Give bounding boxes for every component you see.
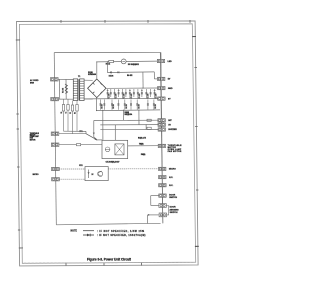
label INT: [168, 120, 172, 122]
svg-text:SWITCH: SWITCH: [170, 212, 178, 214]
relay RY2 text: [92, 174, 95, 176]
label fan motor small: [141, 154, 146, 156]
label 5V C: [168, 124, 171, 126]
connector CN1 AC line 2: [51, 97, 59, 100]
label BUZZER: [168, 129, 177, 131]
left border blob 2: [17, 128, 19, 130]
note line1 symbol: [83, 230, 94, 232]
wire rail2: [107, 71, 154, 74]
transformer T1 primary: [73, 79, 77, 101]
connector CN2 motor pin 1: [51, 132, 59, 135]
diode D7 on drop: [93, 133, 95, 135]
wire buzzer rail: [100, 128, 158, 130]
relay RY1 driver: [105, 147, 110, 152]
left border tick: [16, 39, 20, 41]
connector CN3 micro pin 1: [52, 167, 60, 170]
capacitor bank row 1 labels: [108, 93, 158, 98]
svg-text:TM(M): TM(M): [139, 144, 144, 146]
capacitor bank row 1: [107, 89, 156, 99]
wire door switch left: [151, 196, 159, 206]
connector INT: [158, 119, 165, 122]
top border tick 3: [147, 20, 149, 23]
top border tick 2: [104, 20, 106, 23]
label D1: [88, 72, 96, 76]
svg-text:DOOR: DOOR: [170, 207, 177, 209]
bottom border tick 1: [65, 263, 67, 266]
junction bridge plus: [96, 61, 97, 62]
connector door sensing 1: [159, 204, 166, 208]
svg-text:: IF NOT SPECIFIED, 1SS270A(M): : IF NOT SPECIFIED, 1SS270A(M): [97, 234, 146, 237]
label RY1: [79, 131, 82, 133]
svg-text:R2: R2: [75, 112, 77, 114]
label LED: [168, 61, 173, 63]
diode D6: [117, 71, 119, 73]
svg-text:N.C.: N.C.: [169, 177, 174, 179]
svg-text:N.C.: N.C.: [169, 185, 174, 187]
connector A: [158, 77, 165, 80]
wire bridge bottom to rail low: [96, 98, 98, 111]
wire bridge plus stub: [96, 62, 98, 79]
svg-text:C1: C1: [65, 111, 67, 113]
diode D5: [110, 71, 112, 73]
junction dots rails: [96, 61, 147, 125]
connector LED: [157, 59, 164, 62]
wire door sensing left: [148, 215, 159, 224]
relay contact: [86, 134, 97, 140]
resistor R4 on rail: [109, 60, 114, 62]
label D8 part no: [125, 112, 133, 116]
label TM: [139, 144, 144, 146]
label AC cord: [30, 79, 39, 84]
connector NC2: [159, 184, 166, 187]
bottom border tick 2: [103, 263, 105, 266]
wire AC pin join vertical: [59, 79, 61, 99]
varistor VA1: [65, 79, 68, 99]
capacitor bank row 2 labels: [102, 104, 157, 109]
wire RY1 to conn: [128, 145, 159, 147]
left border tick lower: [19, 247, 23, 249]
label GND: [168, 88, 173, 90]
label R4: [106, 63, 110, 66]
wire motor line 1: [59, 133, 86, 135]
wire conn column verticals: [161, 52, 163, 223]
connector door switch: [159, 194, 166, 197]
label turntable motor block: [30, 132, 39, 141]
left border blob 1: [16, 113, 18, 115]
wire secondary top to bridge: [84, 79, 93, 81]
svg-text:C2: C2: [70, 112, 72, 114]
relay RY2 transistor: [98, 171, 103, 177]
wire rail2 drop: [106, 62, 108, 73]
note line1 text: [97, 230, 145, 233]
svg-text:D5 D6: D5 D6: [109, 75, 114, 77]
svg-text:CE JS1E(M)-DC5V: CE JS1E(M)-DC5V: [106, 162, 121, 164]
svg-text:MOTOR: MOTOR: [30, 139, 36, 141]
svg-text:NOTE: NOTE: [71, 231, 78, 233]
wire rail low: [96, 109, 160, 112]
label R6: [127, 74, 132, 77]
connector door sensing 2: [159, 213, 166, 217]
wire 5V rail: [100, 124, 158, 126]
label 5V A: [168, 79, 171, 81]
svg-text:C8 100: C8 100: [102, 104, 104, 109]
junction contact: [96, 139, 97, 140]
label MICRO right: [169, 169, 176, 171]
label turntable right: [168, 144, 182, 153]
transformer T1 core: [78, 79, 79, 100]
right border tick lower: [195, 245, 199, 247]
bracket door sensing: [167, 206, 170, 215]
note line2 symbol: [83, 234, 94, 237]
left border blob 3: [17, 166, 19, 168]
wire rail B: [84, 98, 158, 100]
component on motor line 2: [76, 144, 80, 146]
relay RY1 box: [102, 140, 128, 158]
label R8 R9: [138, 136, 147, 139]
resistor R8: [147, 119, 151, 121]
connector CN2 motor pin 2: [51, 143, 59, 146]
wire secondary bottom to bridge: [84, 98, 93, 100]
svg-text:C8 100: C8 100: [113, 104, 115, 109]
wire micro 1 dashed: [59, 168, 85, 170]
wire relay feed 2: [114, 125, 116, 140]
svg-text:RY2: RY2: [79, 165, 82, 167]
svg-text:BUZZER: BUZZER: [168, 129, 177, 131]
svg-text:C8 100: C8 100: [126, 104, 128, 109]
fuse F1 circle: [121, 59, 126, 64]
wire sub bottom bus: [64, 131, 87, 134]
svg-text:D8(M): D8(M): [125, 112, 130, 114]
wire micro right dashed: [108, 168, 158, 170]
relay RY2 diode: [88, 170, 90, 179]
right border tick: [192, 36, 196, 38]
right border blob 3: [196, 189, 198, 191]
resistor R9: [147, 127, 151, 129]
svg-text:MICRO: MICRO: [33, 174, 40, 176]
figure title: [87, 258, 131, 262]
PCB outline right edge: [160, 52, 163, 223]
label T1: [78, 76, 81, 78]
connector GND: [158, 86, 165, 89]
bottom border tick 3: [141, 263, 143, 266]
wire AC neutral to transformer: [58, 98, 73, 100]
connector turntable: [158, 144, 165, 147]
svg-text:GND: GND: [168, 88, 173, 90]
note line2 text: [97, 234, 146, 237]
svg-text:LED: LED: [168, 61, 173, 63]
wire DC rail top: [97, 60, 158, 63]
svg-text:BRN: BRN: [30, 82, 35, 84]
svg-text:Figure 9-3. Power Unit Circuit: Figure 9-3. Power Unit Circuit: [87, 258, 131, 262]
wire 5V drop: [138, 110, 140, 125]
transformer T1 secondary: [80, 79, 84, 101]
svg-text:: IF NOT SPECIFIED, 1/4W ±5%: : IF NOT SPECIFIED, 1/4W ±5%: [97, 230, 145, 233]
connector CN3 micro pin 2: [52, 178, 60, 181]
wire relay feed: [102, 110, 104, 140]
PCB outline top edge: [54, 51, 160, 53]
relay RY2 box: [85, 167, 108, 181]
label D3 part no: [128, 64, 139, 66]
svg-text:C8 100: C8 100: [155, 104, 157, 109]
svg-text:FAN MOTOR: FAN MOTOR: [168, 150, 182, 153]
label RY2: [79, 165, 82, 167]
page inner border: [19, 24, 195, 263]
label NC2: [169, 185, 174, 187]
wire micro 2 dashed: [59, 178, 85, 180]
label RY1 part: [106, 162, 121, 164]
connector NC1: [159, 175, 166, 178]
label D5 D6: [109, 75, 114, 77]
left border blob 4: [18, 229, 20, 231]
connector micro right: [159, 167, 166, 170]
wire motor line 2: [59, 144, 102, 146]
bottom border dashes: [24, 261, 194, 264]
PCB outline bottom edge: [56, 223, 160, 225]
wire INT rail: [94, 119, 158, 121]
svg-text:D3 SB(M)BR2: D3 SB(M)BR2: [128, 64, 139, 66]
svg-text:R1: R1: [61, 111, 63, 113]
primary sub components R1 C1 R2 C2: [62, 99, 78, 134]
note heading: [71, 231, 78, 233]
wire AC hot to transformer: [58, 78, 73, 80]
wire rail2 to conn A: [154, 72, 157, 79]
label micro left: [33, 174, 40, 176]
label door sensing switch: [170, 207, 179, 215]
label varistor: [61, 87, 64, 93]
page outer border: [17, 21, 199, 266]
connector B: [158, 97, 165, 100]
wire rail2 to GND rail: [142, 72, 144, 88]
PCB outline left edge: [54, 53, 56, 225]
svg-text:C8 100: C8 100: [138, 104, 140, 109]
label NC1: [169, 177, 174, 179]
svg-text:SENSING: SENSING: [170, 209, 179, 211]
svg-text:MICRO: MICRO: [169, 169, 176, 171]
wire INT drop from low rail: [122, 110, 124, 120]
right border blob 1: [195, 67, 197, 69]
capacitor bank row 2: [100, 100, 155, 110]
wire buzzer drop: [145, 125, 147, 130]
svg-text:SWITCH: SWITCH: [169, 197, 177, 199]
labels sub components: [61, 111, 77, 114]
top border tick 1: [60, 20, 62, 23]
relay RY1 coil: [115, 144, 124, 155]
label 9V: [168, 98, 171, 100]
connector buzzer: [158, 128, 165, 131]
svg-text:S1WBA60: S1WBA60: [88, 73, 96, 76]
wire GND rail: [106, 87, 158, 89]
bridge rectifier D1 body: [88, 79, 106, 98]
wire contact to RY1: [97, 139, 102, 141]
arrow door sensing: [148, 214, 150, 216]
top border tick 4: [189, 20, 191, 23]
connector C: [158, 123, 165, 126]
right border blob 2: [195, 126, 197, 128]
wire contact feed vertical: [94, 121, 97, 140]
svg-text:FM(M): FM(M): [141, 154, 146, 156]
label door switch: [169, 195, 177, 199]
connector CN1 AC line 1: [51, 78, 59, 81]
